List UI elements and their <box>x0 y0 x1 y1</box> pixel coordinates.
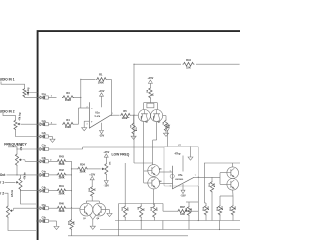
svg-text:AUDIO IN 2: AUDIO IN 2 <box>0 109 15 113</box>
svg-text:LM13600: LM13600 <box>175 179 183 181</box>
svg-text:TL074: TL074 <box>94 115 101 118</box>
svg-text:100k**: 100k** <box>122 116 130 120</box>
svg-text:15K: 15K <box>186 66 191 70</box>
svg-text:R42: R42 <box>59 168 64 172</box>
svg-text:100K: 100K <box>65 125 71 129</box>
svg-text:C5a: C5a <box>42 205 47 207</box>
svg-text:R37: R37 <box>180 205 185 209</box>
svg-text:-15V: -15V <box>165 125 171 128</box>
svg-text:+15V: +15V <box>99 90 105 93</box>
svg-text:R4: R4 <box>66 118 70 122</box>
svg-text:FREQUENCY: FREQUENCY <box>4 143 27 147</box>
svg-text:R44: R44 <box>186 58 191 62</box>
svg-text:+15V: +15V <box>147 77 153 80</box>
svg-text:-15V: -15V <box>99 135 105 138</box>
svg-text:47K: 47K <box>207 206 210 210</box>
svg-text:1: 1 <box>112 113 113 115</box>
svg-text:47K: 47K <box>213 183 216 187</box>
svg-text:C4a: C4a <box>42 171 47 174</box>
svg-text:U1a: U1a <box>95 111 100 114</box>
svg-text:10K: 10K <box>191 208 193 212</box>
svg-text:47K: 47K <box>135 127 138 131</box>
svg-text:V 2: V 2 <box>0 191 4 195</box>
svg-text:C3b: C3b <box>42 158 47 160</box>
svg-text:47k log: 47k log <box>27 87 30 96</box>
svg-text:AUDIO IN 1: AUDIO IN 1 <box>0 78 15 82</box>
svg-text:+15V: +15V <box>89 173 95 176</box>
svg-text:47k lin: 47k lin <box>20 143 23 151</box>
svg-text:C2a: C2a <box>42 121 47 123</box>
svg-text:C3a: C3a <box>42 146 47 148</box>
svg-text:R5: R5 <box>123 109 127 113</box>
svg-text:-15V: -15V <box>104 185 110 188</box>
svg-text:100K: 100K <box>79 170 85 174</box>
svg-text:100K: 100K <box>98 81 104 85</box>
svg-text:C4b: C4b <box>42 186 47 189</box>
svg-text:U7a: U7a <box>178 174 183 177</box>
svg-text:V/Oct: V/Oct <box>0 173 6 177</box>
svg-text:R34: R34 <box>80 163 85 167</box>
svg-text:47kp: 47kp <box>175 152 181 156</box>
svg-text:R3: R3 <box>66 91 70 95</box>
svg-text:12K: 12K <box>180 212 185 216</box>
svg-text:150K: 150K <box>58 162 64 166</box>
svg-text:V 1: V 1 <box>0 180 4 184</box>
svg-text:47k lin: 47k lin <box>24 172 27 180</box>
svg-text:2: 2 <box>87 106 88 108</box>
svg-text:LOW FREQ: LOW FREQ <box>112 152 130 156</box>
svg-text:R43: R43 <box>59 155 64 159</box>
svg-text:C5b: C5b <box>42 218 47 220</box>
svg-text:47k lin: 47k lin <box>11 189 14 197</box>
svg-text:3: 3 <box>87 123 88 125</box>
svg-text:47k log: 47k log <box>19 112 22 121</box>
svg-text:R41: R41 <box>59 184 64 188</box>
svg-text:100K: 100K <box>58 191 64 195</box>
svg-text:5: 5 <box>170 170 171 172</box>
svg-text:R40: R40 <box>59 202 64 206</box>
svg-text:100K: 100K <box>65 98 71 102</box>
svg-text:7: 7 <box>195 175 196 177</box>
svg-text:+15V: +15V <box>103 151 109 154</box>
svg-text:10K: 10K <box>74 221 76 225</box>
svg-text:-15V: -15V <box>180 194 186 197</box>
svg-text:R1: R1 <box>99 73 103 77</box>
svg-text:100K: 100K <box>58 209 64 213</box>
svg-text:C2b: C2b <box>42 133 47 135</box>
svg-text:100K: 100K <box>58 176 64 180</box>
svg-text:6: 6 <box>170 186 171 188</box>
svg-text:C1a: C1a <box>42 94 47 96</box>
